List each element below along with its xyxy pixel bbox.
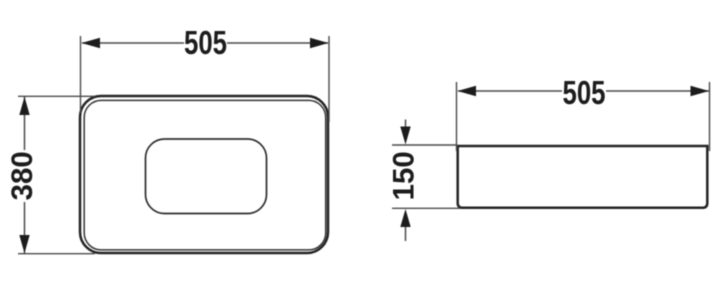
basin outer rim (80, 96, 328, 253)
arrow left (458, 86, 477, 96)
dim leader bottom (405, 226, 407, 241)
arrow down (19, 235, 29, 253)
extension line bottom (18, 253, 95, 255)
extension line right (709, 82, 711, 151)
arrow left (82, 38, 101, 48)
svg-text:505: 505 (184, 25, 227, 62)
dim leader top (405, 120, 407, 129)
arrow up (19, 97, 29, 115)
svg-text:380: 380 (6, 151, 39, 200)
dim line left segment (82, 42, 184, 44)
extension line top (18, 95, 95, 97)
extension line top (392, 144, 457, 146)
svg-text:505: 505 (562, 75, 605, 112)
extension line right (328, 36, 330, 122)
dim line right segment (606, 90, 709, 92)
svg-text:150: 150 (387, 151, 420, 200)
dim line left segment (458, 90, 562, 92)
arrow down (400, 127, 410, 145)
dim line bottom segment (24, 202, 26, 253)
dim line top segment (24, 97, 26, 150)
basin inner rim (84, 100, 326, 250)
extension line left (456, 82, 458, 151)
side body (458, 146, 708, 208)
arrow up (400, 209, 410, 227)
arrow right (310, 38, 329, 48)
arrow right (691, 86, 710, 96)
basin bottom rect (146, 139, 267, 214)
extension line bottom (392, 207, 460, 209)
extension line left (80, 36, 82, 113)
dim line right segment (227, 42, 328, 44)
